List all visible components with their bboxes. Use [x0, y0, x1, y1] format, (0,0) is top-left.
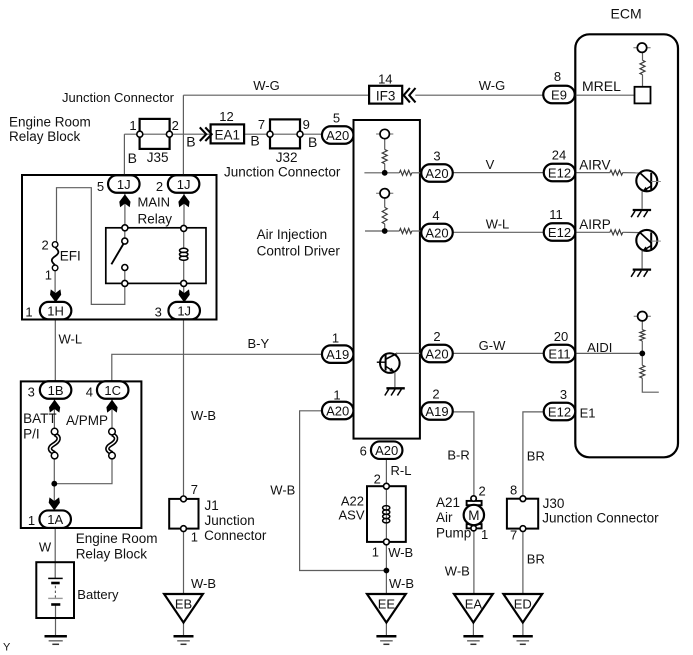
- svg-text:Pump: Pump: [436, 526, 471, 541]
- svg-text:Junction Connector: Junction Connector: [224, 164, 341, 179]
- svg-text:A20: A20: [375, 443, 398, 458]
- svg-text:2: 2: [172, 118, 179, 133]
- svg-text:A20: A20: [425, 346, 448, 361]
- svg-text:AIRV: AIRV: [579, 158, 610, 173]
- svg-text:1J: 1J: [177, 177, 191, 192]
- svg-text:1: 1: [333, 388, 340, 403]
- svg-text:Relay Block: Relay Block: [76, 547, 148, 562]
- svg-text:1C: 1C: [104, 383, 121, 398]
- svg-text:EA1: EA1: [215, 128, 241, 143]
- svg-text:M: M: [468, 508, 479, 523]
- svg-text:A/PMP: A/PMP: [66, 413, 108, 428]
- svg-text:3: 3: [28, 384, 35, 399]
- svg-text:Control Driver: Control Driver: [257, 244, 341, 259]
- svg-text:Engine Room: Engine Room: [76, 531, 158, 546]
- svg-text:3: 3: [155, 304, 162, 319]
- svg-text:1: 1: [481, 527, 488, 542]
- svg-text:Relay: Relay: [138, 211, 173, 226]
- svg-text:W-B: W-B: [270, 483, 295, 498]
- svg-text:E12: E12: [548, 225, 571, 240]
- svg-text:W-G: W-G: [479, 78, 505, 93]
- svg-text:Relay Block: Relay Block: [9, 129, 81, 144]
- svg-text:7: 7: [510, 528, 517, 543]
- svg-text:24: 24: [552, 148, 566, 163]
- svg-text:4: 4: [432, 208, 439, 223]
- svg-text:IF3: IF3: [376, 88, 396, 103]
- svg-text:1: 1: [372, 545, 379, 560]
- svg-text:EE: EE: [378, 597, 396, 612]
- svg-text:1A: 1A: [47, 512, 63, 527]
- svg-text:14: 14: [378, 71, 392, 86]
- svg-text:J32: J32: [276, 150, 298, 165]
- svg-text:Junction Connector: Junction Connector: [62, 90, 175, 105]
- svg-text:E1: E1: [580, 405, 596, 420]
- svg-text:2: 2: [42, 237, 49, 252]
- svg-text:P/I: P/I: [23, 427, 40, 442]
- svg-text:7: 7: [191, 482, 198, 497]
- svg-text:B-Y: B-Y: [248, 336, 270, 351]
- svg-text:12: 12: [219, 109, 233, 124]
- svg-text:1H: 1H: [47, 303, 64, 318]
- svg-text:E12: E12: [548, 404, 571, 419]
- svg-text:E9: E9: [551, 87, 567, 102]
- svg-text:1: 1: [25, 304, 32, 319]
- svg-text:1: 1: [28, 513, 35, 528]
- svg-text:A20: A20: [326, 128, 349, 143]
- svg-text:MAIN: MAIN: [138, 195, 171, 210]
- svg-text:2: 2: [479, 484, 486, 499]
- svg-text:ECM: ECM: [611, 6, 642, 22]
- svg-text:5: 5: [97, 179, 104, 194]
- svg-text:1: 1: [45, 267, 52, 282]
- svg-text:MREL: MREL: [582, 78, 621, 94]
- svg-text:ASV: ASV: [338, 508, 364, 523]
- svg-text:E12: E12: [548, 165, 571, 180]
- svg-text:J35: J35: [147, 150, 169, 165]
- svg-text:W-B: W-B: [191, 408, 216, 423]
- svg-text:Engine Room: Engine Room: [9, 115, 91, 130]
- svg-text:Junction: Junction: [205, 513, 255, 528]
- svg-text:W-G: W-G: [253, 78, 279, 93]
- svg-text:B: B: [250, 132, 259, 148]
- svg-text:J30: J30: [543, 496, 565, 511]
- svg-text:Connector: Connector: [204, 528, 267, 543]
- svg-text:2: 2: [156, 179, 163, 194]
- svg-text:3: 3: [433, 149, 440, 164]
- svg-text:1: 1: [191, 529, 198, 544]
- svg-text:8: 8: [510, 482, 517, 497]
- svg-text:W: W: [39, 539, 52, 554]
- svg-text:3: 3: [560, 387, 567, 402]
- svg-text:Junction Connector: Junction Connector: [542, 511, 659, 526]
- svg-text:V: V: [486, 157, 495, 172]
- svg-text:Battery: Battery: [77, 587, 119, 602]
- svg-text:Y: Y: [3, 642, 11, 654]
- svg-text:B: B: [308, 134, 317, 150]
- svg-text:W-L: W-L: [59, 332, 83, 347]
- svg-text:W-L: W-L: [486, 216, 510, 231]
- svg-text:8: 8: [554, 69, 561, 84]
- svg-text:A22: A22: [341, 494, 364, 509]
- svg-text:9: 9: [303, 117, 310, 132]
- svg-text:EFI: EFI: [60, 249, 81, 264]
- svg-text:B-R: B-R: [447, 448, 469, 463]
- svg-text:EB: EB: [175, 597, 192, 612]
- svg-text:W-B: W-B: [389, 576, 414, 591]
- svg-text:W-B: W-B: [191, 576, 216, 591]
- svg-text:R-L: R-L: [391, 463, 412, 478]
- svg-text:G-W: G-W: [479, 338, 506, 353]
- svg-text:E11: E11: [548, 346, 570, 361]
- svg-text:ED: ED: [514, 597, 532, 612]
- svg-text:1: 1: [332, 331, 339, 346]
- svg-text:A19: A19: [326, 347, 349, 362]
- svg-text:20: 20: [554, 329, 568, 344]
- svg-text:BATT: BATT: [23, 411, 57, 426]
- svg-text:11: 11: [549, 207, 563, 222]
- svg-text:W-B: W-B: [445, 564, 470, 579]
- svg-text:AIRP: AIRP: [579, 217, 611, 232]
- svg-text:A19: A19: [425, 404, 448, 419]
- svg-text:5: 5: [333, 111, 340, 126]
- svg-text:B: B: [186, 134, 195, 150]
- svg-text:W-B: W-B: [388, 545, 413, 560]
- svg-text:BR: BR: [527, 552, 545, 567]
- svg-text:A20: A20: [425, 166, 448, 181]
- svg-text:2: 2: [432, 387, 439, 402]
- svg-text:4: 4: [86, 384, 93, 399]
- svg-text:A20: A20: [425, 225, 448, 240]
- svg-text:1J: 1J: [117, 177, 131, 192]
- svg-text:A20: A20: [326, 403, 349, 418]
- svg-text:1B: 1B: [48, 383, 64, 398]
- svg-text:A21: A21: [436, 495, 460, 510]
- svg-text:B: B: [128, 150, 137, 166]
- svg-text:1J: 1J: [177, 303, 191, 318]
- svg-text:J1: J1: [205, 498, 219, 513]
- svg-text:2: 2: [433, 329, 440, 344]
- svg-text:7: 7: [258, 117, 265, 132]
- svg-text:2: 2: [374, 472, 381, 487]
- svg-text:BR: BR: [527, 449, 545, 464]
- svg-text:Air: Air: [436, 510, 453, 525]
- svg-text:Air Injection: Air Injection: [257, 227, 328, 242]
- svg-text:EA: EA: [465, 597, 483, 612]
- svg-text:6: 6: [360, 443, 367, 458]
- svg-text:AIDI: AIDI: [587, 340, 612, 355]
- svg-text:1: 1: [129, 118, 136, 133]
